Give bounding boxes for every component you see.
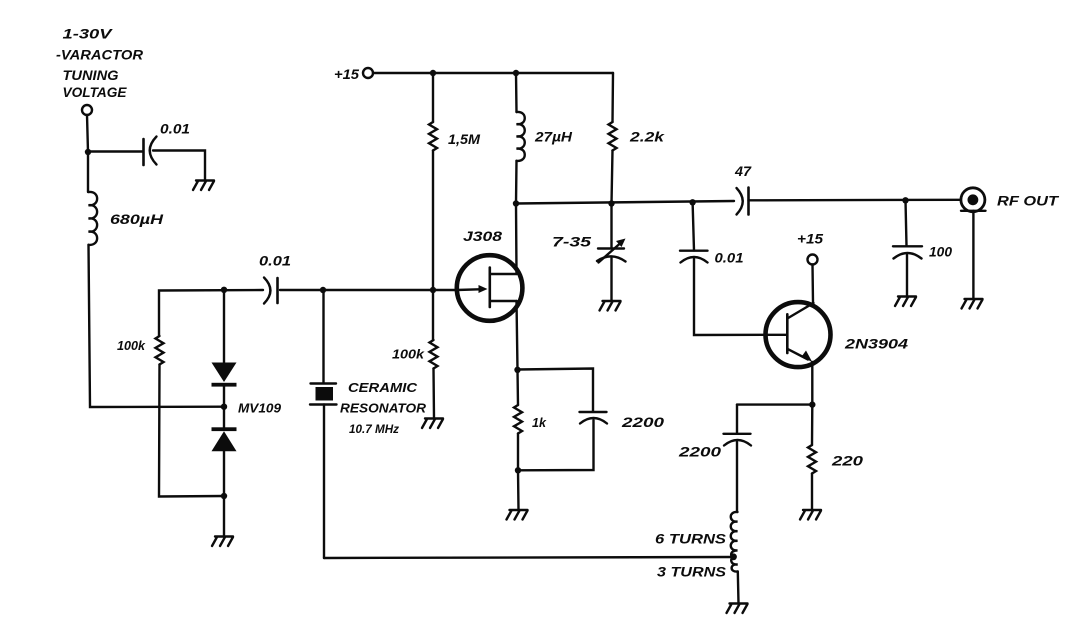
ground G3 bbox=[422, 419, 443, 429]
svg-text:47: 47 bbox=[734, 164, 753, 179]
node K junction (emitter) bbox=[809, 401, 815, 407]
ground G8 bbox=[895, 297, 916, 307]
inductor L3 output coil 3 turns bbox=[657, 557, 739, 603]
svg-text:100: 100 bbox=[929, 245, 952, 260]
svg-text:RESONATOR: RESONATOR bbox=[340, 401, 427, 416]
node C junction (resonator top) bbox=[320, 287, 326, 293]
svg-text:2.2k: 2.2k bbox=[629, 130, 666, 145]
node varactor bottom junction bbox=[221, 493, 227, 499]
svg-text:-VARACTOR: -VARACTOR bbox=[56, 48, 143, 63]
wire drain rail bbox=[516, 201, 734, 204]
svg-text:2200: 2200 bbox=[678, 445, 722, 460]
wire R1 bottom to varactor bottom node bbox=[159, 365, 224, 497]
svg-text:RF OUT: RF OUT bbox=[997, 194, 1060, 209]
resistor R3 1.5M bbox=[429, 73, 481, 290]
wire C2 to resonator node bbox=[280, 289, 323, 291]
wire L1 to varactor mid node bbox=[89, 245, 225, 407]
node L junction (coil tap) bbox=[730, 553, 737, 560]
node rail junction L2 bbox=[513, 70, 519, 76]
capacitor C3 0.01 (output coupling) bbox=[680, 202, 787, 335]
wire to ground G2 bbox=[223, 496, 225, 536]
ground G7 bbox=[800, 510, 821, 520]
ground G9 bbox=[962, 299, 983, 309]
capacitor C2 0.01 (gate coupling) bbox=[259, 254, 291, 304]
wire gate rail left segment bbox=[159, 290, 263, 336]
svg-text:10.7 MHz: 10.7 MHz bbox=[349, 422, 399, 436]
ground G4 bbox=[600, 301, 621, 311]
node D junction (1.5M bottom / gate) bbox=[430, 287, 436, 293]
node E junction (drain rail / 27uH) bbox=[513, 200, 519, 206]
node F junction (trimmer top) bbox=[608, 200, 614, 206]
ground G2 bbox=[212, 537, 233, 547]
svg-text:J308: J308 bbox=[463, 229, 503, 244]
ground G5 bbox=[507, 510, 528, 520]
resistor R1 100k bbox=[117, 336, 164, 365]
wire gate rail right segment bbox=[323, 289, 457, 291]
wire C1 to ground bbox=[153, 151, 205, 181]
svg-text:1k: 1k bbox=[532, 415, 547, 430]
label ceramic resonator bbox=[340, 380, 427, 436]
node tuning-voltage terminal bbox=[82, 105, 92, 115]
wire terminal to node A bbox=[87, 115, 88, 152]
node J junction (100 cap top) bbox=[902, 197, 908, 203]
node B junction (varactor top) bbox=[221, 287, 227, 293]
svg-text:3 TURNS: 3 TURNS bbox=[657, 565, 726, 580]
svg-text:TUNING: TUNING bbox=[63, 68, 120, 83]
inductor L1 680uH bbox=[88, 152, 163, 245]
inductor L3 output coil 6 turns bbox=[655, 512, 738, 557]
svg-text:+15: +15 bbox=[797, 232, 824, 247]
svg-text:1-30V: 1-30V bbox=[63, 27, 113, 42]
label tuning voltage text bbox=[56, 27, 143, 101]
svg-text:CERAMIC: CERAMIC bbox=[348, 380, 418, 395]
svg-text:680µH: 680µH bbox=[110, 212, 163, 227]
inductor L2 27uH bbox=[516, 73, 572, 204]
svg-text:220: 220 bbox=[831, 454, 864, 469]
JFET U1 J308 bbox=[457, 204, 523, 370]
capacitor C6 47 bbox=[734, 164, 753, 215]
svg-text:7-35: 7-35 bbox=[552, 235, 592, 250]
wire to ground G5 bbox=[517, 470, 520, 509]
svg-text:MV109: MV109 bbox=[238, 401, 282, 416]
wire feedback (resonator to coil tap) bbox=[324, 557, 734, 558]
resistor R6 220 bbox=[808, 405, 864, 510]
node G junction (0.01 top) bbox=[689, 199, 695, 205]
ground G1 bbox=[193, 181, 214, 191]
resistor R2 100k (gate bias) bbox=[392, 290, 438, 418]
svg-text:0.01: 0.01 bbox=[259, 254, 291, 269]
svg-text:27µH: 27µH bbox=[534, 130, 572, 145]
svg-text:+15: +15 bbox=[334, 67, 360, 82]
capacitor C7 2200 (emitter) bbox=[678, 405, 751, 512]
resistor R5 1k bbox=[514, 370, 547, 471]
node varactor mid junction bbox=[221, 404, 227, 410]
node I junction (1k bottom) bbox=[515, 467, 521, 473]
varactor D1 MV109 (top) bbox=[212, 290, 237, 407]
wire emitter to C7 bbox=[737, 403, 812, 405]
node rail junction R3 bbox=[430, 70, 436, 76]
svg-text:2200: 2200 bbox=[621, 415, 665, 430]
capacitor C5 2200 bbox=[518, 369, 665, 471]
node A junction bbox=[85, 149, 91, 155]
svg-text:1,5M: 1,5M bbox=[448, 132, 481, 147]
svg-text:100k: 100k bbox=[117, 338, 146, 353]
connector J1 RF OUT bbox=[961, 188, 1060, 299]
svg-text:2N3904: 2N3904 bbox=[844, 337, 909, 352]
ceramic resonator Y1 bbox=[310, 290, 337, 558]
wire +15 rail bbox=[373, 72, 613, 74]
node +15 terminal 2 bbox=[808, 255, 818, 265]
svg-text:0.01: 0.01 bbox=[715, 251, 744, 266]
svg-text:VOLTAGE: VOLTAGE bbox=[63, 85, 128, 100]
ground G6 bbox=[727, 604, 748, 614]
node H junction (1k top) bbox=[514, 367, 520, 373]
capacitor C1 0.01 bbox=[144, 122, 191, 166]
svg-text:6 TURNS: 6 TURNS bbox=[655, 532, 726, 547]
transistor Q1 2N3904 bbox=[766, 265, 909, 405]
node +15 terminal bbox=[363, 68, 373, 78]
trimmer capacitor C4 7-35 bbox=[552, 204, 626, 301]
varactor D2 MV109 (bottom) bbox=[212, 407, 237, 496]
svg-text:0.01: 0.01 bbox=[160, 122, 190, 137]
wire C6 to RF out bbox=[749, 199, 961, 202]
capacitor C8 100 bbox=[893, 200, 952, 296]
wire node A to C1 bbox=[88, 150, 143, 152]
resistor R4 2.2k bbox=[609, 73, 666, 204]
svg-text:100k: 100k bbox=[392, 347, 425, 362]
